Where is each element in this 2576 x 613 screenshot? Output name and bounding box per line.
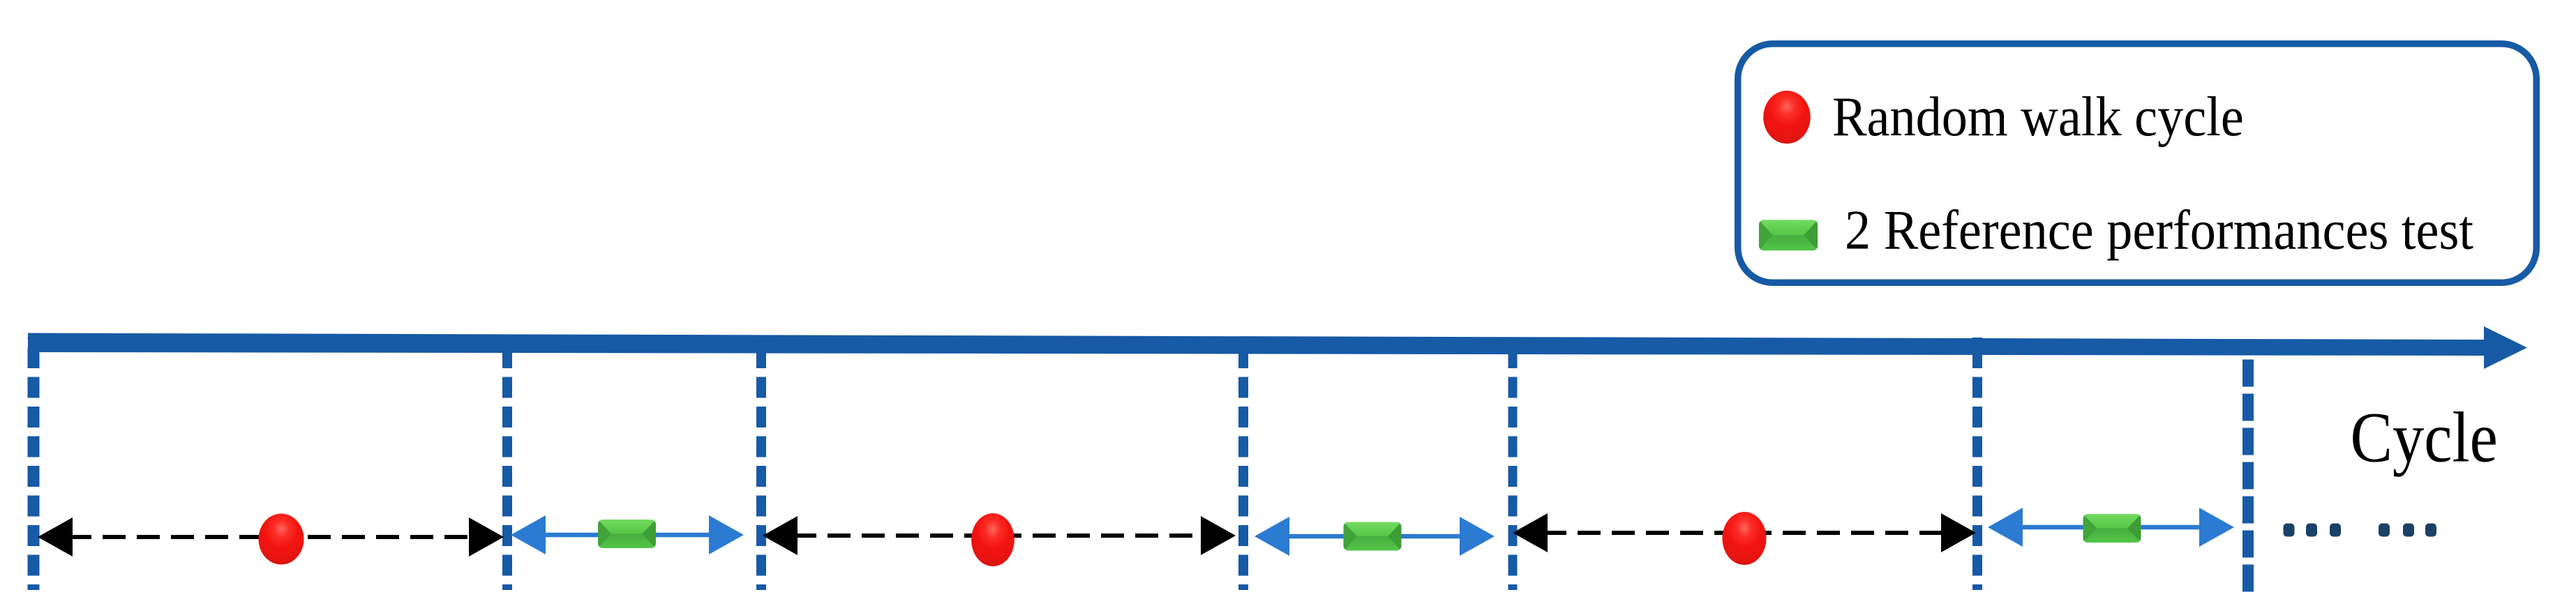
svg-text:Cycle: Cycle — [2351, 398, 2498, 477]
svg-text:Random walk cycle: Random walk cycle — [1832, 85, 2244, 148]
svg-text:2 Reference performances test: 2 Reference performances test — [1845, 199, 2473, 262]
